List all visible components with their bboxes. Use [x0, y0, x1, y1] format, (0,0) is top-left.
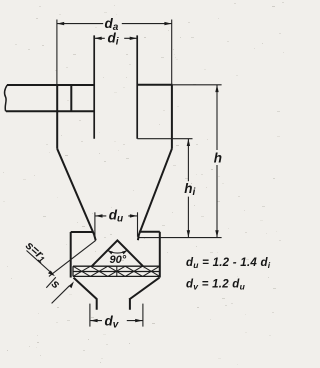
arrow h_i bottom	[187, 230, 190, 237]
hopper right	[130, 278, 160, 310]
pipe/cylinder junction divider	[70, 85, 72, 111]
arrow s	[69, 281, 74, 288]
band hatch X cell 2	[90, 266, 107, 276]
band mid line	[73, 271, 160, 273]
vortex finder tube right wall	[136, 35, 138, 138]
h top extension	[173, 84, 222, 86]
svg-text:90°: 90°	[110, 254, 127, 266]
thin dimension linework	[27, 20, 222, 327]
arrow h top	[215, 85, 218, 92]
hopper left	[74, 278, 97, 310]
ring band with hatching	[73, 266, 160, 276]
band left cap	[72, 266, 74, 276]
cylinder top edge right	[137, 84, 172, 86]
arrow h_i top	[187, 139, 190, 146]
d_u right extension	[137, 212, 139, 237]
h dimension line	[216, 85, 218, 238]
s arrow shaft	[52, 286, 70, 304]
arrow arc left	[107, 250, 113, 254]
s=r1 leader extension E1	[49, 240, 96, 276]
s=r1 label line	[27, 251, 50, 272]
band top line	[73, 265, 160, 267]
cone left wall	[57, 149, 95, 241]
dust box left wall	[70, 232, 72, 278]
dust box right wall	[159, 232, 161, 278]
arrow d_u right	[130, 214, 137, 217]
arrow h bottom	[215, 230, 218, 237]
wire inlet pipe bottom	[6, 110, 94, 112]
arrow d_a left	[57, 22, 64, 25]
pipe break symbol	[5, 85, 8, 111]
vortex finder tube left wall	[93, 35, 95, 138]
dust box top lip left	[71, 231, 93, 233]
h bottom extension	[139, 237, 222, 239]
arrowheads	[48, 22, 219, 322]
arrow d_a right	[164, 22, 171, 25]
d_u left extension	[94, 212, 96, 237]
cylinder left wall	[56, 85, 58, 149]
h_i top extension	[137, 138, 192, 140]
h_i dimension line	[187, 139, 189, 238]
arrow d_i right	[130, 37, 137, 40]
arrow d_u left	[95, 214, 102, 217]
d_a right extension	[171, 20, 173, 85]
d_a left extension	[56, 20, 58, 86]
band bottom line	[73, 275, 160, 277]
d_v right extension	[142, 304, 144, 327]
band hatch X cell 5	[143, 266, 160, 276]
angle arc 90deg	[107, 250, 127, 253]
d_a dimension line	[57, 23, 172, 25]
dust box top lip right	[139, 231, 160, 233]
cone right wall	[138, 149, 172, 241]
band right cap	[159, 266, 161, 276]
d_i dimension line	[94, 37, 137, 39]
arrow d_i left	[94, 37, 101, 40]
cylinder right wall	[171, 85, 173, 149]
wire inlet pipe top	[7, 84, 94, 86]
band hatch X cell 3	[108, 266, 125, 276]
arrow arc right	[122, 250, 128, 254]
apex cone 90 deg	[92, 240, 143, 266]
band center tick	[116, 266, 118, 276]
d_u dimension line	[95, 215, 137, 217]
svg-text:du = 1.2 - 1.4 di: du = 1.2 - 1.4 di	[186, 257, 271, 270]
arrow s=r1	[48, 271, 55, 277]
arrow d_v right	[135, 319, 142, 322]
arrow d_v left	[90, 319, 97, 322]
s extension line P1	[46, 277, 56, 288]
d_v dimension line	[90, 320, 142, 322]
svg-text:h: h	[214, 150, 222, 165]
band hatch X cell 4	[125, 266, 142, 276]
d_v left extension	[89, 304, 91, 327]
band hatch X cell 1	[73, 266, 90, 276]
